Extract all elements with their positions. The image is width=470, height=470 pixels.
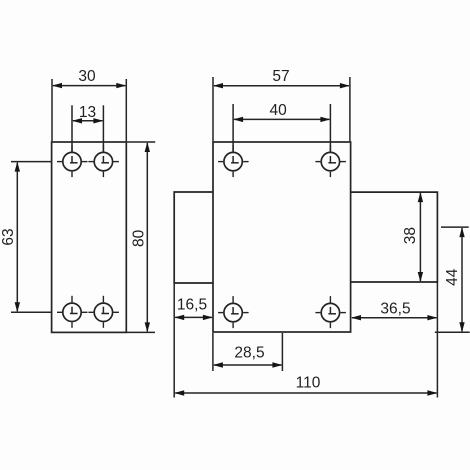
- dimension 38 (bolt height): [402, 192, 423, 282]
- dimension 28,5 (body left edge to cylinder axis): [213, 333, 283, 371]
- body hole bottom-right: [315, 296, 346, 328]
- dimension 63 (hole vertical spacing): [0, 162, 51, 313]
- right protrusion (bolt): [351, 192, 438, 282]
- body hole top-right: [315, 145, 346, 177]
- svg-text:110: 110: [296, 374, 321, 391]
- svg-text:28,5: 28,5: [234, 345, 264, 362]
- faceplate hole top-left: [57, 145, 88, 177]
- left protrusion (mounting flange): [174, 192, 213, 283]
- dimension 110 (overall length): [174, 282, 437, 398]
- svg-text:40: 40: [269, 102, 287, 119]
- svg-text:36,5: 36,5: [380, 301, 410, 318]
- svg-text:38: 38: [402, 227, 419, 244]
- faceplate hole bottom-right: [88, 296, 119, 328]
- svg-text:80: 80: [131, 229, 148, 247]
- svg-text:63: 63: [0, 228, 17, 245]
- svg-text:16,5: 16,5: [177, 297, 207, 314]
- dimension 13 (faceplate hole spacing): [72, 104, 103, 151]
- body hole bottom-left: [218, 296, 249, 328]
- body hole top-left: [218, 145, 249, 177]
- dimension 80 (faceplate height): [127, 142, 155, 332]
- dimension 16,5 (flange depth): [174, 283, 213, 398]
- lock body outline (right view): [213, 142, 351, 332]
- faceplate hole bottom-left: [57, 296, 88, 328]
- dimension 30 (faceplate width): [52, 68, 126, 141]
- svg-text:30: 30: [78, 68, 96, 85]
- dimension 36,5 (bolt length): [351, 301, 437, 321]
- svg-text:44: 44: [444, 268, 461, 286]
- svg-text:57: 57: [272, 68, 289, 85]
- dimension 44 (axis to body bottom): [435, 227, 470, 332]
- faceplate outline (left view): [52, 142, 127, 332]
- dimension 40 (body hole spacing): [233, 102, 330, 151]
- faceplate hole top-right: [88, 145, 119, 177]
- dimension 57 (body width): [213, 68, 350, 141]
- svg-text:13: 13: [79, 104, 96, 121]
